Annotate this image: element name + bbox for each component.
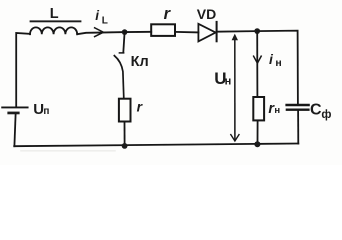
current arrow iL xyxy=(95,8,108,36)
wire node A down to switch contact xyxy=(123,32,124,53)
svg-text:ф: ф xyxy=(321,109,331,121)
node A (top of switch branch) xyxy=(122,29,128,35)
resistor rн xyxy=(253,97,280,120)
svg-text:н: н xyxy=(225,75,232,87)
node B (top of load branch) xyxy=(254,28,260,34)
svg-text:н: н xyxy=(274,105,280,116)
resistor r (top) xyxy=(151,5,175,36)
wire node to resistor r xyxy=(125,31,152,33)
wire node B to top-right corner, down to capacitor xyxy=(257,31,298,104)
node (bottom of switch branch) xyxy=(122,143,128,149)
svg-text:C: C xyxy=(310,101,322,118)
bottom rail wire xyxy=(14,144,298,147)
wire top-left corner and left vertical to battery xyxy=(16,33,30,107)
node (bottom of load branch) xyxy=(254,141,260,147)
wire resistor to diode xyxy=(175,31,198,34)
svg-text:н: н xyxy=(275,57,281,69)
svg-text:i: i xyxy=(95,8,99,23)
faint scan smudge xyxy=(20,150,116,152)
wire node B down to rн with current arrow iн xyxy=(256,31,258,97)
wire capacitor to bottom rail xyxy=(297,111,299,144)
inductor L xyxy=(30,6,82,34)
wire battery to bottom rail xyxy=(14,114,15,146)
battery Uп xyxy=(2,101,49,118)
svg-text:VD: VD xyxy=(197,6,216,22)
resistor r (switch branch) xyxy=(119,98,144,121)
svg-text:п: п xyxy=(43,106,49,117)
wire diode to node B xyxy=(217,30,258,33)
wire resistor to bottom rail xyxy=(124,122,126,146)
current arrow iн xyxy=(254,51,282,69)
svg-text:L: L xyxy=(102,16,108,27)
svg-text:Кл: Кл xyxy=(131,54,149,70)
wire rн to bottom rail xyxy=(257,120,259,144)
voltage arrow Uн xyxy=(214,34,239,141)
capacitor Cф xyxy=(287,101,332,120)
diode VD xyxy=(197,6,217,41)
switch Кл xyxy=(114,53,148,99)
wire inductor to node xyxy=(77,32,124,34)
svg-text:L: L xyxy=(50,6,59,22)
